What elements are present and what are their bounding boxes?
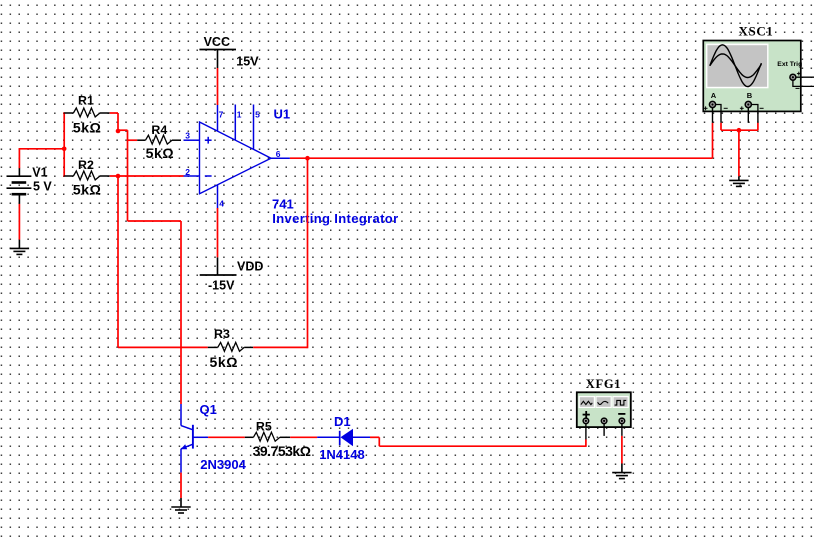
wire V1 positive to R1/R2 rail bbox=[19, 149, 65, 168]
label Q1 bbox=[200, 402, 217, 417]
svg-text:2: 2 bbox=[185, 167, 190, 177]
wire pin 4 to VDD bbox=[217, 208, 219, 257]
annotation 741 Inverting Integrator bbox=[272, 197, 398, 226]
svg-text:VDD: VDD bbox=[237, 260, 263, 274]
svg-text:5: 5 bbox=[255, 109, 260, 119]
VDD power rail symbol bbox=[200, 257, 237, 275]
wire Q1 base to R5 bbox=[208, 436, 245, 438]
label R1 bbox=[78, 93, 94, 107]
ground at XFG1 bbox=[612, 473, 631, 479]
pin 4 negative supply bbox=[218, 185, 225, 209]
resistor R4 bbox=[137, 135, 181, 144]
svg-text:XFG1: XFG1 bbox=[586, 377, 621, 391]
svg-text:5 V: 5 V bbox=[33, 179, 52, 193]
svg-text:XSC1: XSC1 bbox=[739, 23, 774, 38]
label VCC bbox=[204, 35, 230, 49]
label R5 bbox=[256, 420, 272, 434]
node V1/R1/R2 junction bbox=[62, 147, 67, 152]
value label 15V (VCC) bbox=[236, 55, 259, 69]
oscilloscope XSC1 bbox=[703, 23, 814, 123]
label R2 bbox=[78, 158, 94, 172]
svg-text:39.753kΩ: 39.753kΩ bbox=[253, 443, 311, 459]
svg-text:R4: R4 bbox=[151, 123, 167, 137]
wire VCC to pin 7 bbox=[217, 68, 219, 105]
svg-text:4: 4 bbox=[219, 199, 224, 209]
wire inverting input to R3 bbox=[118, 175, 208, 347]
label VDD bbox=[237, 260, 263, 274]
op-amp U1 body (741 triangle) bbox=[200, 122, 272, 194]
value label 1N4148 (D1) bbox=[319, 447, 365, 462]
function generator XFG1 bbox=[577, 377, 631, 440]
value label 5k ohm (R1) bbox=[73, 119, 102, 135]
wire Q1 emitter to ground bbox=[180, 473, 182, 507]
svg-text:R5: R5 bbox=[256, 420, 272, 434]
svg-text:1: 1 bbox=[237, 109, 242, 119]
label V1 bbox=[32, 165, 47, 179]
wire op-amp output to oscilloscope channel A bbox=[290, 123, 713, 158]
value label -15V (VDD) bbox=[208, 279, 235, 293]
wire R4 node down to Q1 collector bbox=[128, 139, 182, 404]
svg-text:Ext Trig: Ext Trig bbox=[777, 61, 802, 68]
ground at V1 bbox=[10, 248, 29, 254]
svg-text:2N3904: 2N3904 bbox=[200, 457, 246, 472]
node R1/R4 junction bbox=[116, 129, 121, 134]
wire D1 anode to XFG1 plus bbox=[370, 437, 586, 447]
resistor R3 bbox=[208, 342, 253, 351]
pin 2 inverting input bbox=[184, 167, 200, 177]
value label 5k ohm (R2) bbox=[73, 182, 102, 198]
svg-text:B: B bbox=[747, 91, 753, 100]
svg-text:U1: U1 bbox=[274, 106, 291, 121]
VCC power rail symbol bbox=[199, 50, 236, 69]
diode D1 bbox=[317, 429, 370, 447]
svg-text:5kΩ: 5kΩ bbox=[73, 182, 102, 198]
svg-text:5kΩ: 5kΩ bbox=[146, 145, 175, 161]
svg-text:1N4148: 1N4148 bbox=[319, 447, 365, 462]
wire R1 to R4 node bbox=[110, 113, 118, 131]
pin 6 output bbox=[271, 149, 290, 159]
wire XFG1 minus to ground bbox=[621, 436, 623, 473]
value label 5k ohm (R4) bbox=[146, 145, 175, 161]
pin 1 offset null bbox=[235, 105, 242, 141]
wire XSC1 A/B minus terminals to ground bbox=[721, 123, 758, 181]
resistor R1 bbox=[64, 108, 110, 117]
svg-text:D1: D1 bbox=[334, 414, 351, 429]
label R3 bbox=[214, 327, 230, 341]
svg-text:-15V: -15V bbox=[208, 279, 235, 293]
node scope ground junction bbox=[737, 128, 742, 133]
svg-text:741: 741 bbox=[272, 197, 294, 212]
svg-text:6: 6 bbox=[276, 149, 281, 159]
ground at XSC1 bbox=[729, 180, 748, 186]
resistor R5 bbox=[245, 432, 290, 441]
wire R2 to op-amp inverting input bbox=[110, 175, 184, 177]
svg-text:Q1: Q1 bbox=[200, 402, 217, 417]
svg-text:V1: V1 bbox=[32, 165, 47, 179]
node output/R3 junction bbox=[305, 156, 310, 161]
svg-text:R2: R2 bbox=[78, 158, 94, 172]
transistor Q1 (NPN) bbox=[181, 404, 209, 473]
pin 7 positive supply bbox=[218, 105, 224, 132]
node inverting input junction bbox=[116, 174, 121, 179]
wire R3 to output node bbox=[253, 158, 307, 348]
value label 2N3904 (Q1) bbox=[200, 457, 246, 472]
svg-text:5kΩ: 5kΩ bbox=[73, 119, 102, 135]
label R4 bbox=[151, 123, 167, 137]
svg-text:R3: R3 bbox=[214, 327, 230, 341]
svg-text:R1: R1 bbox=[78, 93, 94, 107]
value label 39.753k ohm (R5) bbox=[253, 443, 311, 459]
value label 5 V (V1) bbox=[33, 179, 52, 193]
pin 3 non-inverting input bbox=[184, 131, 200, 141]
svg-text:15V: 15V bbox=[236, 55, 259, 69]
svg-text:3: 3 bbox=[185, 131, 190, 141]
svg-text:VCC: VCC bbox=[204, 35, 230, 49]
value label 5k ohm (R3) bbox=[210, 354, 239, 370]
svg-text:7: 7 bbox=[219, 109, 224, 119]
svg-text:Inverting Integrator: Inverting Integrator bbox=[272, 211, 398, 226]
ground at Q1 emitter bbox=[171, 507, 190, 513]
label U1 bbox=[274, 106, 291, 121]
battery V1 (DC source) bbox=[7, 168, 32, 204]
wire R5 to D1 cathode bbox=[290, 436, 317, 438]
label D1 bbox=[334, 414, 351, 429]
wire R1-R2 left rail bbox=[63, 112, 65, 176]
svg-text:A: A bbox=[711, 91, 717, 100]
pin 5 offset null bbox=[254, 105, 261, 150]
resistor R2 bbox=[64, 171, 110, 180]
svg-text:5kΩ: 5kΩ bbox=[210, 354, 239, 370]
wire node to R4 bbox=[118, 130, 137, 140]
wire V1 negative to ground bbox=[18, 204, 20, 249]
